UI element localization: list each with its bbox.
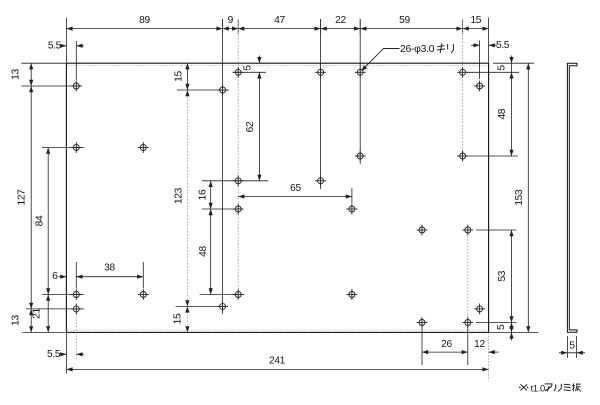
svg-text:5: 5 — [243, 65, 254, 71]
svg-text:15: 15 — [173, 313, 184, 324]
svg-text:53: 53 — [497, 270, 508, 281]
svg-text:9: 9 — [228, 15, 234, 26]
svg-text:5.5: 5.5 — [496, 40, 510, 51]
svg-text:5: 5 — [497, 65, 508, 71]
svg-text:89: 89 — [139, 15, 150, 26]
svg-text:5: 5 — [569, 340, 575, 352]
svg-text:13: 13 — [11, 69, 22, 80]
svg-text:38: 38 — [104, 263, 115, 274]
svg-text:65: 65 — [290, 183, 301, 194]
svg-text:6: 6 — [52, 271, 58, 282]
svg-text:47: 47 — [274, 15, 285, 26]
svg-text:123: 123 — [174, 187, 185, 204]
svg-text:84: 84 — [35, 215, 46, 226]
svg-text:15: 15 — [174, 71, 185, 82]
svg-text:22: 22 — [335, 15, 346, 26]
svg-text:59: 59 — [399, 15, 410, 26]
svg-text:t1.0: t1.0 — [531, 382, 545, 393]
svg-text:48: 48 — [497, 108, 508, 119]
svg-text:26: 26 — [441, 339, 452, 350]
svg-text:48: 48 — [198, 246, 209, 257]
svg-text:241: 241 — [269, 356, 286, 367]
svg-text:5: 5 — [496, 324, 507, 330]
svg-text:153: 153 — [514, 189, 525, 206]
svg-text:15: 15 — [470, 15, 481, 26]
svg-text:5.5: 5.5 — [47, 349, 61, 360]
svg-text:16: 16 — [198, 189, 209, 200]
svg-text:12: 12 — [474, 339, 485, 350]
svg-text:21: 21 — [32, 308, 43, 319]
svg-text:127: 127 — [17, 189, 28, 206]
svg-text:13: 13 — [11, 315, 22, 326]
svg-text:26-φ3.0: 26-φ3.0 — [400, 43, 435, 55]
svg-text:5.5: 5.5 — [48, 40, 62, 51]
svg-text:62: 62 — [245, 121, 256, 132]
